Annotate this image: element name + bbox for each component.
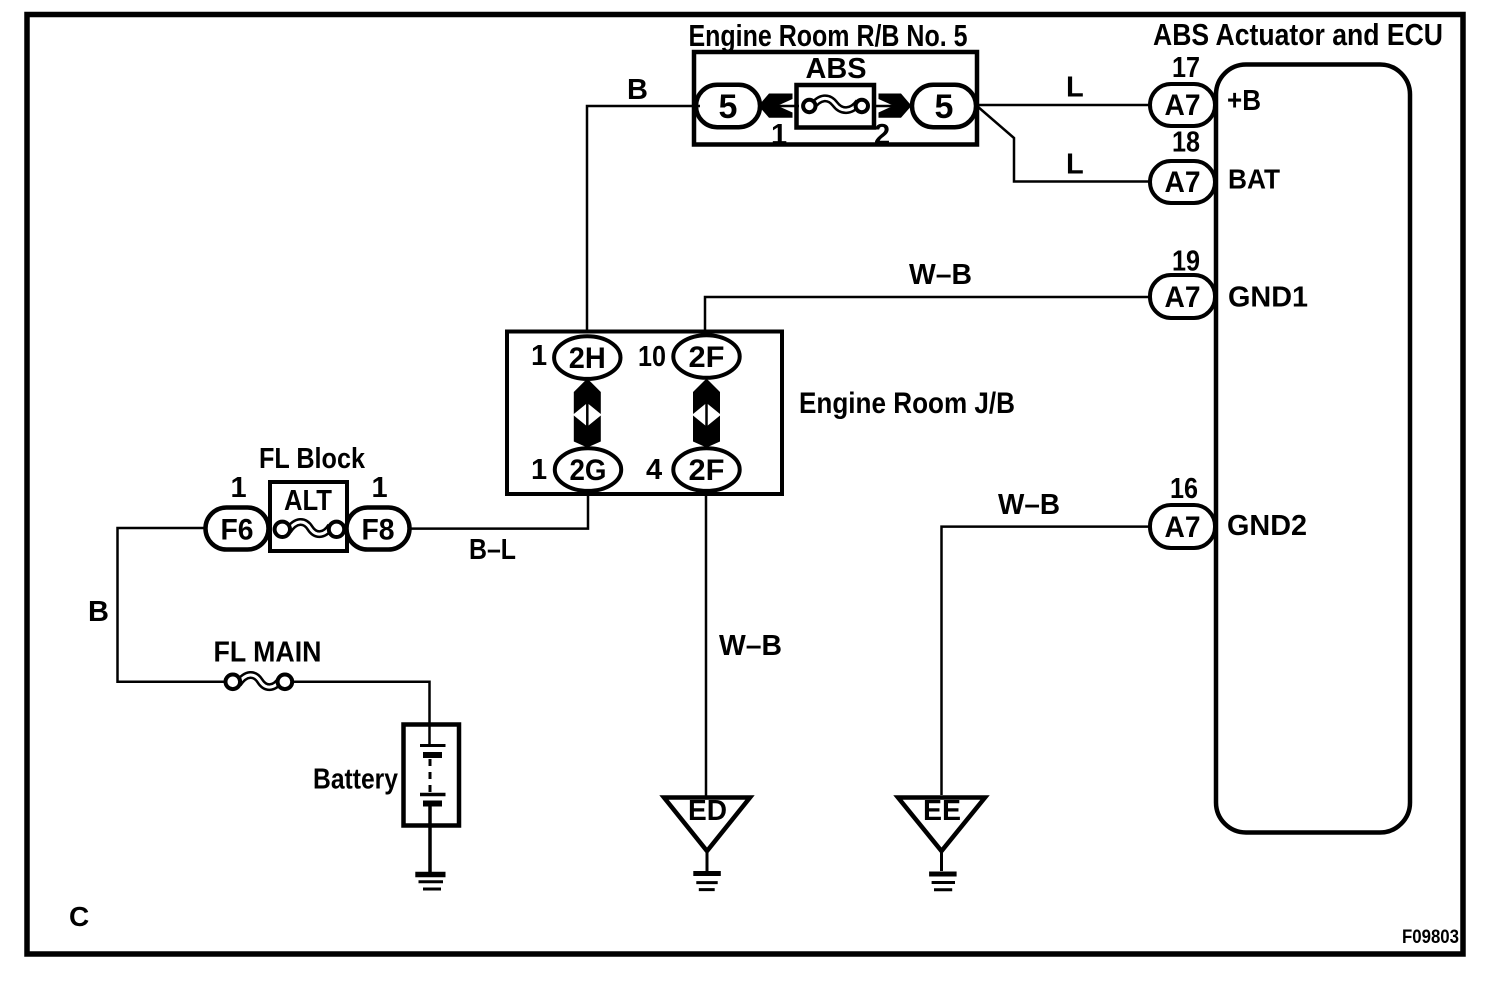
svg-text:1: 1 [372, 472, 388, 504]
connector 2G [555, 448, 621, 491]
svg-text:FL Block: FL Block [259, 443, 366, 475]
wire EE to ground [940, 851, 943, 871]
svg-text:B: B [627, 74, 648, 106]
svg-text:1: 1 [771, 119, 787, 151]
svg-text:A7: A7 [1165, 281, 1201, 314]
svg-text:2F: 2F [689, 341, 725, 374]
connector A7 pin 19 [1150, 275, 1215, 318]
battery [404, 725, 460, 826]
svg-text:ED: ED [688, 795, 727, 827]
svg-text:EE: EE [923, 795, 961, 827]
svg-text:B: B [88, 596, 109, 628]
svg-text:+B: +B [1227, 85, 1261, 117]
wire W-B to pin 16 [942, 527, 1152, 795]
svg-text:W–B: W–B [998, 489, 1060, 521]
svg-text:B–L: B–L [469, 534, 516, 566]
svg-text:5: 5 [935, 88, 954, 126]
ground point EE [898, 795, 985, 851]
connector A7 pin 17 [1150, 84, 1215, 126]
connector F6 [206, 508, 269, 550]
svg-text:2F: 2F [689, 454, 725, 487]
svg-text:F8: F8 [362, 514, 395, 547]
wire B from R/B to J/B 2H [587, 106, 700, 332]
connector 2F (top) [673, 335, 739, 378]
svg-text:C: C [69, 901, 89, 932]
svg-text:Battery: Battery [313, 764, 398, 796]
wire B-L from F8 to 2G [410, 491, 588, 529]
svg-text:1: 1 [531, 454, 547, 486]
wire L to pin 18 [977, 106, 1151, 182]
wire FL MAIN to battery [292, 682, 430, 745]
wire L to pin 17 [974, 104, 1151, 107]
svg-text:L: L [1066, 72, 1084, 104]
svg-text:Engine Room J/B: Engine Room J/B [799, 387, 1015, 420]
svg-text:FL MAIN: FL MAIN [214, 637, 322, 669]
wire ED to ground [706, 851, 709, 872]
connector A7 pin 16 [1150, 505, 1215, 548]
svg-text:A7: A7 [1165, 166, 1201, 199]
svg-text:2: 2 [874, 119, 890, 151]
ground (EE) [929, 874, 957, 890]
svg-text:A7: A7 [1165, 511, 1201, 544]
svg-text:2H: 2H [569, 342, 606, 375]
junction box Engine Room J/B [507, 332, 782, 495]
wire fuse to connector 5 left [757, 105, 799, 108]
connector 2H [554, 336, 620, 379]
svg-text:GND2: GND2 [1227, 510, 1307, 542]
svg-text:BAT: BAT [1228, 164, 1280, 195]
svg-text:GND1: GND1 [1228, 282, 1308, 314]
svg-text:ABS: ABS [806, 53, 867, 85]
wire W-B from 2F to ED [705, 491, 708, 797]
arrow pin 1 [759, 94, 793, 118]
fusible link block box ALT [270, 482, 347, 551]
svg-text:F6: F6 [221, 514, 254, 547]
ground (battery) [415, 875, 445, 890]
connector F8 [347, 508, 410, 550]
internal link arrow 2H-2G [574, 379, 601, 448]
svg-text:L: L [1066, 149, 1084, 181]
svg-text:F09803: F09803 [1402, 927, 1459, 948]
svg-text:5: 5 [719, 88, 738, 126]
arrow pin 2 [879, 94, 912, 118]
svg-text:1: 1 [231, 472, 247, 504]
svg-text:19: 19 [1172, 246, 1200, 278]
fusible link FL MAIN [226, 675, 293, 690]
svg-text:W–B: W–B [719, 630, 782, 662]
wire battery to ground [428, 806, 432, 872]
internal link arrow 2F-2F [693, 379, 720, 448]
fusible link ALT [275, 522, 345, 537]
svg-text:4: 4 [646, 454, 662, 486]
svg-text:18: 18 [1172, 127, 1200, 159]
svg-text:Engine Room R/B No. 5: Engine Room R/B No. 5 [689, 18, 968, 53]
ground (ED) [693, 874, 721, 890]
ground point ED [664, 795, 750, 851]
svg-text:17: 17 [1172, 52, 1200, 84]
wire B from F6 to FL MAIN [118, 528, 227, 682]
wire W-B to pin 19 [705, 297, 1151, 336]
connector 5 (left) [696, 85, 760, 128]
svg-text:1: 1 [531, 340, 547, 372]
svg-text:ABS Actuator and ECU: ABS Actuator and ECU [1153, 17, 1443, 52]
wire fuse to connector 5 right [872, 105, 914, 108]
svg-text:16: 16 [1170, 473, 1198, 505]
connector 2F (bottom) [673, 448, 739, 491]
fuse ABS [797, 85, 875, 128]
svg-text:10: 10 [638, 341, 666, 373]
svg-text:ALT: ALT [284, 485, 332, 517]
svg-text:W–B: W–B [909, 259, 972, 291]
ECU body [1216, 65, 1410, 833]
svg-text:2G: 2G [570, 454, 607, 487]
relay box Engine Room R/B No. 5 [694, 52, 977, 145]
connector 5 (right) [912, 85, 976, 128]
connector A7 pin 18 [1150, 161, 1215, 203]
svg-text:A7: A7 [1165, 89, 1201, 122]
